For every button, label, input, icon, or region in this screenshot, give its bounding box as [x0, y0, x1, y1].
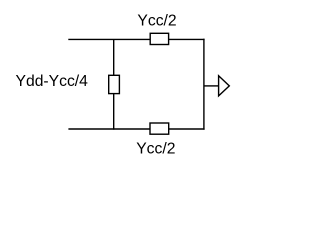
wire middle vertical lower segment	[113, 94, 115, 130]
svg-text:Ycc/2: Ycc/2	[136, 141, 175, 158]
wire output stub	[204, 85, 219, 87]
resistor R3 (middle, Ydd-Ycc/4)	[109, 75, 120, 93]
wire top-right segment	[169, 38, 205, 40]
wire right vertical rail	[203, 39, 205, 130]
resistor R1 (top, Ycc/2)	[150, 33, 168, 44]
svg-text:Ycc/2: Ycc/2	[137, 13, 176, 30]
wire bottom-right segment	[169, 128, 205, 130]
resistor R2 (bottom, Ycc/2)	[150, 123, 169, 134]
wire top-left segment	[68, 38, 150, 40]
wire middle vertical upper segment	[113, 39, 115, 75]
output port arrow	[219, 76, 230, 96]
wire bottom-left segment	[68, 128, 150, 130]
svg-text:Ydd-Ycc/4: Ydd-Ycc/4	[16, 73, 89, 90]
